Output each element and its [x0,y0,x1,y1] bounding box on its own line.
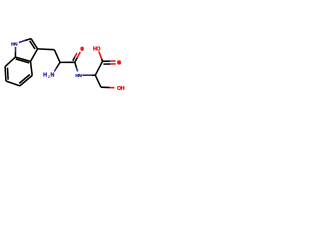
svg-text:HO: HO [93,46,100,52]
wire: double bond C10=O2 (acid C=O) [103,60,111,62]
wire: bond N1-C2 (indole pyrrole) [19,41,25,43]
wire: bond C3-C3a (indole) [31,49,38,62]
wire: double bond C7=C6 (benzene) [4,67,7,81]
wire: double bond C3a=C7a (ring fusion) [15,57,30,61]
svg-text:N: N [51,73,55,79]
chemical structure diagram: dipeptide tryptophyl-serine (Trp-Ser) [0,0,130,130]
label: amide carbonyl O [81,47,84,51]
label: acid carbonyl O [117,60,121,64]
wire: bond CA2-C11 [95,75,101,87]
wire: double bond C5=C4 (benzene) [20,76,32,86]
wire: double bond C9=O1 (amide C=O) [75,58,77,63]
wire: bond C10-O3 (acid C-OH) [101,59,104,61]
wire: bond C4-C3a (benzene) [31,61,33,75]
wire: bond CA1-C9 [60,61,75,63]
wire: bond CA1-N2 (amine) [56,62,60,68]
svg-text:HN: HN [75,73,82,79]
wire: bond N3-CA2 [82,74,91,76]
svg-text:H: H [43,73,47,79]
wire: bond C7a-N1 (indole) [14,52,16,57]
wire: bond CA2-C10 [95,61,102,75]
wire: bond C7a-C7 (benzene) [5,57,15,67]
wire: bond C9-N3 (amide) [75,62,77,67]
wire: double bond C2=C3 (indole) [31,39,38,49]
wire: bond C6-C5 (benzene) [6,81,20,86]
wire: bond C11-O4 (CH2-OH) [101,86,110,88]
wire: bond C3-CB (methylene) [38,48,55,51]
svg-text:HN: HN [11,41,18,47]
svg-text:OH: OH [117,86,125,92]
wire: bond CB-CA1 [54,50,60,63]
